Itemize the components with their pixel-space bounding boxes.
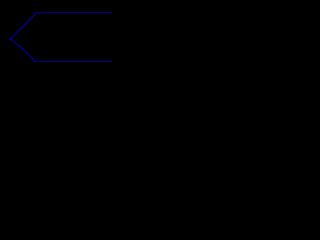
wire: chevron diagonals (upper + lower) meeting at left vertex xyxy=(10,13,36,62)
wire: bottom horizontal rail xyxy=(35,61,112,62)
wire: top horizontal rail xyxy=(37,12,112,13)
background xyxy=(0,0,125,94)
